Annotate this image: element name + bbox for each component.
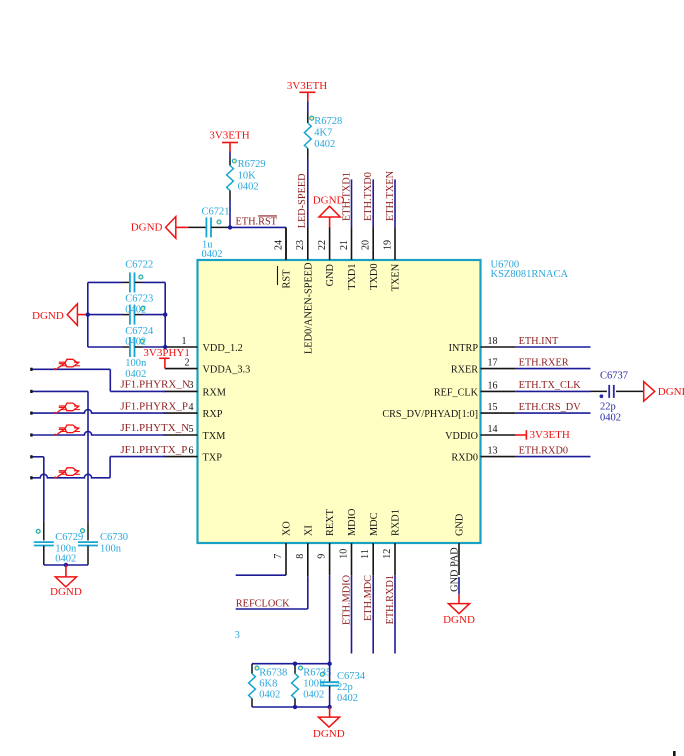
pin 24 RST name overline bbox=[277, 266, 279, 285]
ferrite bead (TX_N) bbox=[58, 425, 81, 434]
svg-text:3V3ETH: 3V3ETH bbox=[287, 80, 327, 92]
wire row to pin 4 bbox=[32, 410, 165, 414]
svg-text:C6722: C6722 bbox=[125, 260, 153, 271]
pin 24 stub bbox=[285, 228, 287, 261]
wire net ETH.RST bbox=[230, 226, 286, 228]
svg-text:RXM: RXM bbox=[203, 387, 226, 398]
wire pin 9 REXT down bbox=[329, 575, 331, 664]
svg-text:ETH.RXD0: ETH.RXD0 bbox=[519, 445, 568, 456]
wire end tick bbox=[30, 433, 32, 436]
svg-text:ETH.TXD1: ETH.TXD1 bbox=[341, 172, 352, 221]
wire net ETH.INT bbox=[515, 346, 590, 348]
svg-text:DGND: DGND bbox=[50, 586, 82, 598]
node junction bbox=[64, 563, 68, 567]
wire bbox=[229, 152, 231, 157]
svg-text:10K: 10K bbox=[238, 170, 257, 181]
pin 22 stub bbox=[329, 228, 331, 261]
svg-text:MDIO: MDIO bbox=[347, 508, 358, 536]
svg-text:JF1.PHYTX_P: JF1.PHYTX_P bbox=[120, 444, 187, 456]
svg-text:JF1.PHYTX_N: JF1.PHYTX_N bbox=[120, 422, 189, 434]
svg-text:18: 18 bbox=[488, 336, 498, 347]
svg-text:ETH.TX_CLK: ETH.TX_CLK bbox=[519, 380, 582, 391]
svg-text:INTRP: INTRP bbox=[449, 343, 479, 354]
wire end tick bbox=[30, 368, 32, 371]
pin 4 RXP stub bbox=[164, 412, 198, 414]
wire row to pin 5 bbox=[32, 431, 165, 435]
wire rail left bbox=[87, 282, 89, 347]
wire row to C6730 rail bbox=[32, 390, 88, 392]
pin 8 stub bbox=[307, 543, 309, 576]
svg-text:10: 10 bbox=[339, 549, 350, 559]
wire net ETH.MDC bbox=[372, 575, 374, 653]
wire end tick bbox=[30, 455, 32, 458]
svg-text:ETH.RST: ETH.RST bbox=[236, 217, 278, 228]
svg-text:C6730: C6730 bbox=[100, 532, 128, 543]
wire net ETH.CRS_DV bbox=[515, 412, 590, 414]
svg-text:19: 19 bbox=[382, 240, 393, 250]
svg-text:TXP: TXP bbox=[203, 453, 223, 464]
svg-text:22p: 22p bbox=[337, 682, 353, 693]
svg-text:C6734: C6734 bbox=[337, 671, 366, 682]
svg-text:DGND: DGND bbox=[313, 194, 345, 206]
svg-text:4K7: 4K7 bbox=[314, 128, 332, 139]
svg-text:DGND: DGND bbox=[131, 222, 163, 234]
sheet border tick bbox=[673, 751, 676, 756]
svg-text:TXEN: TXEN bbox=[391, 263, 402, 291]
ground DGND (C6737) bbox=[644, 382, 655, 402]
svg-text:11: 11 bbox=[360, 549, 371, 559]
capacitor C6724 branch bbox=[88, 346, 123, 348]
wire end tick bbox=[30, 476, 32, 479]
svg-text:C6737: C6737 bbox=[600, 371, 628, 382]
capacitor C6722 branch bbox=[88, 281, 123, 283]
pin 11 stub bbox=[372, 543, 374, 575]
capacitor C6729 100n bbox=[43, 522, 45, 541]
wire net ETH.RXD1 bbox=[394, 575, 396, 653]
wire net ETH.TXEN bbox=[394, 179, 396, 227]
svg-text:0402: 0402 bbox=[238, 182, 259, 193]
pin GND PAD stub bbox=[458, 543, 460, 575]
svg-text:1: 1 bbox=[182, 336, 187, 347]
wire jog down to pin 3 bbox=[109, 369, 111, 391]
svg-text:R6728: R6728 bbox=[314, 116, 342, 127]
node junctions bbox=[86, 312, 90, 316]
wire rail A down to C6729 bbox=[43, 457, 45, 522]
svg-text:RST: RST bbox=[282, 269, 293, 289]
svg-text:16: 16 bbox=[488, 380, 498, 391]
node junctions bbox=[293, 662, 297, 666]
wire end tick bbox=[30, 390, 32, 393]
pin 13 RXD0 stub bbox=[481, 456, 516, 458]
svg-text:100K: 100K bbox=[303, 679, 327, 690]
svg-text:5: 5 bbox=[189, 424, 194, 435]
resistor R6735 100K bbox=[294, 664, 296, 674]
capacitor C6734 22p bbox=[329, 664, 331, 678]
svg-text:0402: 0402 bbox=[600, 412, 621, 423]
svg-text:DGND: DGND bbox=[443, 614, 475, 626]
svg-text:TXM: TXM bbox=[203, 431, 226, 442]
svg-text:R6738: R6738 bbox=[259, 668, 287, 679]
pin 20 stub bbox=[372, 228, 374, 261]
svg-text:XI: XI bbox=[303, 525, 314, 536]
wire bottom rail bbox=[252, 706, 330, 708]
svg-text:VDDA_3.3: VDDA_3.3 bbox=[203, 365, 251, 376]
wire bbox=[44, 564, 88, 566]
svg-text:ETH.TXEN: ETH.TXEN bbox=[385, 170, 396, 221]
power port 3V3ETH (pin 14) bbox=[515, 434, 526, 436]
svg-text:0402: 0402 bbox=[314, 139, 335, 150]
capacitor C6723 branch bbox=[88, 314, 123, 316]
svg-text:13: 13 bbox=[488, 446, 498, 457]
pin 3 RXM stub bbox=[164, 390, 198, 392]
svg-text:15: 15 bbox=[488, 402, 498, 413]
svg-text:100n: 100n bbox=[100, 543, 122, 554]
wire net ETH.RXER bbox=[515, 368, 590, 370]
pin 12 stub bbox=[394, 543, 396, 575]
node ETH.RST junction bbox=[228, 225, 232, 229]
svg-text:LED-SPEED: LED-SPEED bbox=[297, 173, 308, 228]
wire bbox=[307, 158, 309, 228]
wire top rail bbox=[252, 663, 330, 665]
svg-text:3V3ETH: 3V3ETH bbox=[209, 130, 249, 142]
wire row to pin 3 (upper) bbox=[32, 368, 110, 370]
svg-text:23: 23 bbox=[295, 240, 306, 250]
svg-text:ETH.CRS_DV: ETH.CRS_DV bbox=[519, 402, 582, 413]
pin 16 REF_CLK stub bbox=[481, 390, 516, 392]
svg-text:0402: 0402 bbox=[303, 690, 324, 701]
svg-text:LED0/ANEN-SPEED: LED0/ANEN-SPEED bbox=[303, 262, 314, 354]
svg-text:100n: 100n bbox=[125, 358, 147, 369]
svg-text:REXT: REXT bbox=[325, 508, 336, 536]
svg-text:0402: 0402 bbox=[259, 690, 280, 701]
svg-text:7: 7 bbox=[273, 554, 284, 559]
svg-text:R6729: R6729 bbox=[238, 159, 266, 170]
capacitor C6721 1u bbox=[189, 226, 207, 228]
pin 19 stub bbox=[394, 228, 396, 261]
ferrite bead (RX_P) bbox=[58, 403, 81, 412]
svg-text:17: 17 bbox=[488, 358, 498, 369]
svg-text:8: 8 bbox=[295, 554, 306, 559]
svg-text:JF1.PHYRX_P: JF1.PHYRX_P bbox=[120, 400, 188, 412]
pin 17 RXER stub bbox=[481, 368, 516, 370]
pin 2 VDDA_3.3 stub bbox=[165, 368, 198, 370]
svg-text:VDD_1.2: VDD_1.2 bbox=[203, 343, 243, 354]
wire pin 8 XI bbox=[307, 576, 309, 609]
wire net ETH.TXD0 bbox=[372, 179, 374, 227]
svg-text:0402: 0402 bbox=[337, 693, 358, 704]
svg-text:C6721: C6721 bbox=[202, 206, 230, 217]
wire net ETH.TX_CLK bbox=[515, 390, 590, 392]
svg-text:GND: GND bbox=[325, 263, 336, 286]
wire row to C6729 rail bbox=[32, 456, 44, 458]
svg-text:DGND: DGND bbox=[313, 728, 345, 740]
wire net ETH.RXD0 bbox=[515, 456, 590, 458]
svg-text:ETH.MDC: ETH.MDC bbox=[363, 575, 374, 621]
svg-text:RXP: RXP bbox=[203, 409, 223, 420]
ground DGND (REXT) bbox=[329, 707, 331, 717]
wire net ETH.MDIO bbox=[351, 575, 353, 653]
capacitor C6737 22p on REF_CLK bbox=[591, 390, 607, 392]
svg-text:3V3PHY1: 3V3PHY1 bbox=[143, 347, 189, 359]
svg-text:R6735: R6735 bbox=[303, 668, 331, 679]
ground DGND (C6729/C6730) bbox=[65, 565, 67, 576]
svg-text:ETH.RXER: ETH.RXER bbox=[519, 357, 569, 368]
wire end tick bbox=[30, 412, 32, 415]
resistor R6738 6K8 bbox=[251, 664, 253, 674]
svg-text:C6724: C6724 bbox=[125, 326, 154, 337]
pin 9 stub bbox=[329, 543, 331, 575]
svg-text:21: 21 bbox=[339, 240, 350, 250]
svg-text:22: 22 bbox=[317, 240, 328, 250]
pin 6 TXP stub bbox=[164, 456, 198, 458]
svg-text:6K8: 6K8 bbox=[259, 679, 277, 690]
svg-text:CRS_DV/PHYAD[1:0]: CRS_DV/PHYAD[1:0] bbox=[382, 409, 478, 420]
wire rail B down to C6730 bbox=[87, 391, 89, 521]
svg-text:3V3ETH: 3V3ETH bbox=[530, 429, 570, 441]
svg-text:12: 12 bbox=[382, 549, 393, 559]
svg-text:4: 4 bbox=[189, 402, 194, 413]
svg-text:TXD0: TXD0 bbox=[369, 263, 380, 289]
svg-text:9: 9 bbox=[317, 554, 328, 559]
pin 15 CRS_DV/PHYAD[1:0] stub bbox=[481, 412, 516, 414]
pin 1 VDD_1.2 stub bbox=[165, 346, 197, 348]
svg-text:JF1.PHYRX_N: JF1.PHYRX_N bbox=[120, 379, 189, 391]
pin 14 VDDIO stub bbox=[481, 434, 516, 436]
wire bbox=[307, 101, 309, 113]
pin 10 stub bbox=[351, 543, 353, 575]
svg-text:14: 14 bbox=[488, 424, 498, 435]
pin 21 stub bbox=[351, 228, 353, 261]
svg-text:ETH.INT: ETH.INT bbox=[519, 336, 559, 347]
svg-text:0402: 0402 bbox=[202, 249, 223, 260]
wire row to pin 6 (lower) bbox=[32, 474, 110, 478]
resistor R6729 10K bbox=[229, 157, 231, 166]
wire bbox=[229, 201, 231, 228]
svg-text:ETH.TXD0: ETH.TXD0 bbox=[363, 172, 374, 221]
svg-text:DGND: DGND bbox=[658, 386, 684, 398]
resistor R6728 4K7 bbox=[307, 113, 309, 123]
svg-text:KSZ8081RNACA: KSZ8081RNACA bbox=[491, 269, 569, 280]
pin 7 stub bbox=[285, 543, 287, 575]
IC U6700 body bbox=[198, 260, 481, 543]
pin 18 INTRP stub bbox=[481, 346, 516, 348]
svg-text:GND: GND bbox=[455, 513, 466, 536]
svg-text:24: 24 bbox=[273, 240, 284, 250]
svg-text:20: 20 bbox=[361, 240, 372, 250]
wire GND PAD bbox=[458, 577, 460, 594]
svg-text:6: 6 bbox=[189, 445, 194, 456]
wire pin 7 XO bbox=[236, 574, 286, 576]
svg-text:VDDIO: VDDIO bbox=[445, 431, 478, 442]
svg-text:REFCLOCK: REFCLOCK bbox=[236, 599, 290, 610]
svg-text:3: 3 bbox=[235, 630, 240, 641]
svg-text:REF_CLK: REF_CLK bbox=[434, 387, 479, 398]
ferrite bead (TX_P) bbox=[58, 468, 81, 477]
capacitor C6730 100n bbox=[87, 522, 89, 541]
svg-text:TXD1: TXD1 bbox=[347, 263, 358, 289]
pin 23 stub bbox=[307, 228, 309, 261]
svg-text:RXD0: RXD0 bbox=[451, 453, 478, 464]
svg-text:22p: 22p bbox=[600, 401, 616, 412]
svg-text:RXER: RXER bbox=[451, 365, 478, 376]
pin 5 TXM stub bbox=[164, 434, 198, 436]
svg-text:ETH.RXD1: ETH.RXD1 bbox=[385, 575, 396, 624]
svg-text:ETH.MDIO: ETH.MDIO bbox=[341, 574, 352, 625]
svg-text:RXD1: RXD1 bbox=[391, 509, 402, 536]
svg-text:XO: XO bbox=[282, 521, 293, 536]
wire rail right bbox=[164, 282, 166, 347]
svg-text:C6723: C6723 bbox=[125, 294, 153, 305]
wire jog up to pin 6 bbox=[109, 457, 111, 478]
wire net ETH.TXD1 bbox=[351, 179, 353, 227]
ground DGND (GND PAD) bbox=[458, 594, 460, 603]
svg-text:DGND: DGND bbox=[32, 310, 64, 322]
ferrite bead (RX_N) bbox=[58, 359, 81, 368]
svg-text:MDC: MDC bbox=[369, 512, 380, 536]
